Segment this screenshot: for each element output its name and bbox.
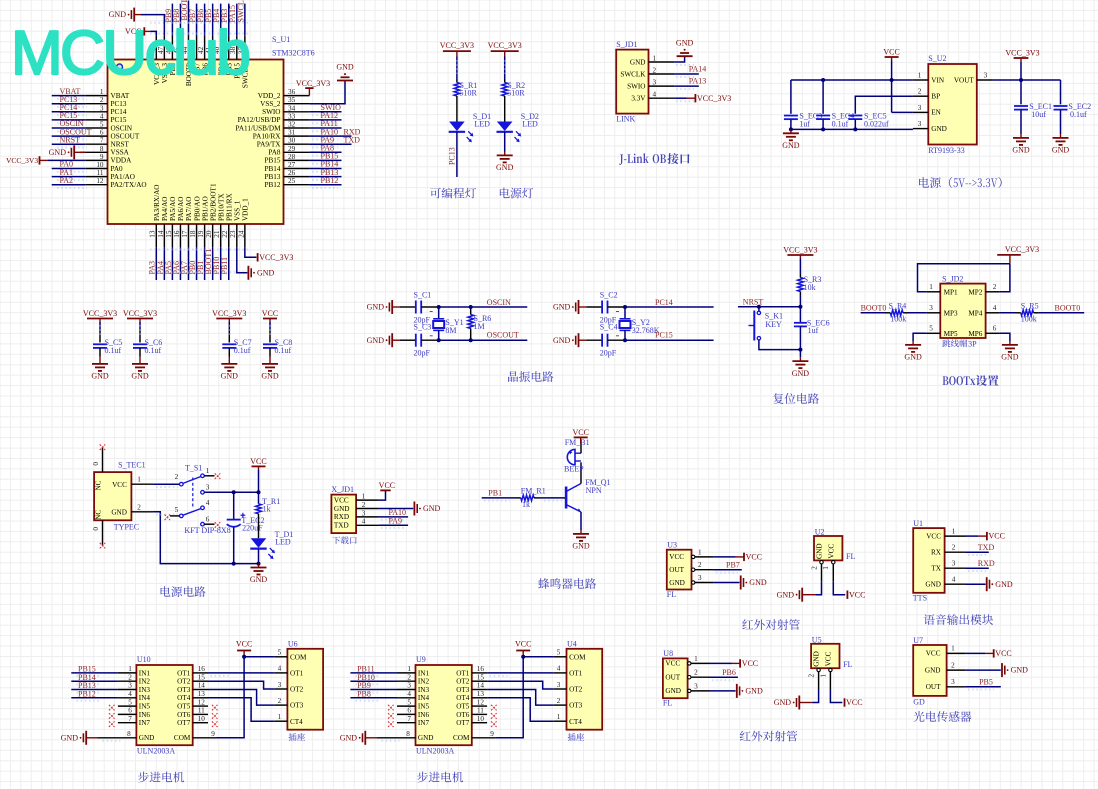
svg-text:PC13: PC13: [448, 147, 457, 165]
capacitor S_C8: [263, 343, 277, 345]
wire OT1: [208, 672, 275, 674]
svg-text:IN6: IN6: [418, 711, 430, 719]
svg-text:4: 4: [278, 665, 282, 673]
svg-text:OT6: OT6: [177, 711, 191, 719]
svg-text:GND: GND: [367, 303, 385, 312]
svg-text:2: 2: [128, 673, 132, 681]
caption stepper motor: [417, 772, 428, 783]
svg-text:TXD: TXD: [344, 135, 361, 144]
svg-text:GND: GND: [111, 508, 127, 516]
no-connect X: [109, 721, 115, 727]
wire: [309, 111, 341, 113]
ground: [1060, 134, 1062, 138]
svg-text:S_R5: S_R5: [1021, 301, 1039, 310]
wire: [966, 567, 989, 569]
wire OT2: [487, 681, 554, 689]
wire: [1020, 110, 1022, 134]
pin 2 OT3: [554, 704, 567, 706]
svg-text:2: 2: [918, 88, 922, 96]
svg-text:GND: GND: [782, 141, 800, 150]
pin 41 PB5: [212, 35, 214, 59]
svg-text:TYPEC: TYPEC: [114, 523, 139, 532]
wire: [244, 4, 246, 36]
wire: [52, 119, 86, 121]
svg-text:1: 1: [819, 673, 827, 677]
svg-text:VCC: VCC: [112, 481, 127, 489]
pin 19 PB1/AO: [204, 224, 206, 247]
wire: [759, 340, 801, 350]
wire: [188, 247, 190, 280]
svg-text:VCC_3V3: VCC_3V3: [83, 309, 117, 318]
svg-text:2: 2: [362, 501, 366, 509]
module U2 body: [814, 536, 842, 560]
svg-text:COM: COM: [290, 653, 307, 661]
svg-text:BP: BP: [931, 93, 940, 101]
svg-text:S_C3: S_C3: [414, 323, 432, 332]
wire OT4: [208, 698, 275, 721]
pin 30 PA9/TX: [284, 143, 310, 145]
svg-text:U1: U1: [913, 519, 923, 528]
pin 9 COM: [193, 737, 217, 739]
wire: [139, 322, 141, 329]
no-connect X: [109, 705, 115, 711]
wire: [52, 135, 86, 137]
svg-text:GND: GND: [816, 543, 824, 559]
svg-text:0.1uf: 0.1uf: [234, 346, 251, 355]
wire emitter: [580, 512, 582, 530]
pin 36 VDD_2: [284, 95, 310, 97]
pin 16 PA6/AO: [179, 224, 181, 247]
pin 9 COM: [472, 737, 496, 739]
svg-text:15: 15: [198, 673, 206, 681]
pin 4 IN4: [397, 697, 416, 699]
svg-text:6: 6: [206, 516, 210, 524]
wire: [139, 348, 141, 356]
capacitor S_C1: [415, 301, 417, 314]
svg-text:2: 2: [137, 503, 141, 511]
svg-text:IN1: IN1: [418, 669, 430, 677]
wire: [379, 524, 409, 526]
svg-text:20: 20: [205, 230, 213, 238]
svg-text:TX: TX: [931, 565, 941, 573]
pin 2 IN2: [118, 680, 136, 682]
wire: [52, 143, 86, 145]
svg-text:GND: GND: [774, 698, 792, 707]
svg-text:19: 19: [197, 230, 205, 238]
module U1 body: [913, 528, 944, 593]
wire: [713, 556, 735, 558]
svg-text:PA5/AO: PA5/AO: [169, 197, 177, 222]
wire: [309, 176, 341, 178]
svg-text:VCC: VCC: [262, 309, 278, 318]
pin 5 OSCIN: [85, 127, 107, 129]
wire: [586, 306, 602, 308]
pin 5 IN5: [118, 705, 136, 707]
pin 1 CT4: [275, 720, 288, 722]
wire: [99, 322, 101, 329]
svg-text:PB7: PB7: [726, 561, 740, 570]
svg-text:3: 3: [952, 559, 956, 567]
ground: [580, 530, 582, 534]
svg-text:PA13: PA13: [689, 77, 707, 86]
svg-text:7: 7: [128, 715, 132, 723]
svg-text:510R: 510R: [460, 89, 478, 98]
svg-text:GND: GND: [553, 336, 571, 345]
svg-text:VCC: VCC: [334, 496, 349, 504]
svg-text:9: 9: [100, 153, 104, 161]
wire: [790, 119, 792, 129]
caption programmable light: [430, 188, 441, 199]
svg-text:VCC_3V3: VCC_3V3: [1005, 245, 1039, 254]
svg-text:GND: GND: [1011, 666, 1029, 675]
wire: [999, 312, 1015, 314]
ground: [337, 80, 353, 82]
pin 22 PB11/RX: [228, 224, 230, 247]
svg-text:3: 3: [929, 304, 933, 312]
svg-text:S_U1: S_U1: [272, 35, 290, 44]
svg-text:FL: FL: [663, 699, 672, 708]
wire NRST: [738, 306, 800, 308]
jumper S_JD2 body: [940, 284, 985, 338]
svg-text:PB6: PB6: [722, 668, 736, 677]
pin 1 IN1: [397, 672, 416, 674]
switch S_K1 KEY: [757, 311, 760, 314]
pin 13 OT4: [193, 697, 208, 699]
svg-text:GND: GND: [61, 733, 79, 742]
connector S_TEC1 TYPEC body: [94, 472, 131, 520]
pin 21 PB10/TX: [220, 224, 222, 247]
caption power circuit: [161, 586, 171, 596]
svg-text:100k: 100k: [890, 315, 906, 324]
wire: [212, 4, 214, 36]
junction: [469, 305, 473, 309]
wire: [309, 81, 345, 104]
wire: [228, 322, 230, 329]
pin 4 GND: [945, 583, 966, 585]
value download port: [332, 537, 340, 545]
pin 16 OT1: [193, 672, 208, 674]
svg-text:IN4: IN4: [139, 694, 151, 702]
junction: [789, 127, 793, 131]
svg-text:OT4: OT4: [177, 694, 191, 702]
svg-text:1: 1: [698, 548, 702, 556]
svg-text:5: 5: [278, 649, 282, 657]
module U3 body: [667, 550, 692, 590]
svg-text:0.1uf: 0.1uf: [275, 346, 292, 355]
svg-text:GND: GND: [131, 372, 149, 381]
caption power 5V to 3.3V: [919, 177, 929, 188]
value jumper cap 3P: [942, 339, 950, 347]
svg-text:8: 8: [406, 730, 410, 738]
svg-text:11: 11: [97, 169, 104, 177]
wire: [471, 306, 528, 308]
wire: [674, 97, 686, 99]
svg-text:VCC: VCC: [995, 649, 1011, 658]
svg-text:GND: GND: [336, 63, 354, 72]
svg-text:GND: GND: [676, 38, 694, 47]
svg-text:VBAT: VBAT: [111, 92, 130, 100]
wire: [71, 697, 118, 699]
no-connect X: [212, 721, 218, 727]
svg-text:PA7/AO: PA7/AO: [185, 197, 193, 222]
svg-text:4: 4: [952, 575, 956, 583]
ground: [677, 55, 693, 57]
pin 32 PA11/USB/DM: [284, 127, 310, 129]
wire: [71, 672, 118, 674]
svg-text:24: 24: [237, 230, 245, 238]
capacitor S_C2: [601, 301, 603, 314]
no-connect X: [215, 473, 221, 479]
wire OT3: [487, 690, 554, 706]
svg-text:RT9193-33: RT9193-33: [928, 146, 964, 155]
svg-text:PC13: PC13: [111, 100, 127, 108]
wire: [966, 535, 978, 537]
pin 20 PB2/BOOT1: [212, 224, 214, 247]
svg-text:1: 1: [918, 72, 922, 80]
wire: [52, 95, 86, 97]
svg-text:S_C2: S_C2: [600, 291, 618, 300]
svg-text:IN2: IN2: [139, 678, 151, 686]
wire: [456, 132, 458, 177]
svg-text:IN1: IN1: [139, 669, 151, 677]
svg-text:2: 2: [557, 697, 561, 705]
wire OT2: [208, 681, 275, 689]
svg-text:GND: GND: [139, 734, 155, 742]
wire: [799, 350, 801, 358]
svg-text:15: 15: [477, 673, 485, 681]
svg-text:VCC: VCC: [989, 532, 1005, 541]
svg-text:OSCOUT: OSCOUT: [487, 331, 519, 340]
svg-text:OUT: OUT: [669, 566, 684, 574]
wire: [52, 111, 86, 113]
svg-text:VCC: VCC: [742, 659, 758, 668]
svg-text:CT4: CT4: [569, 718, 582, 726]
svg-text:27: 27: [288, 161, 296, 169]
svg-text:1: 1: [951, 645, 955, 653]
wire: [179, 4, 181, 36]
svg-text:SWIO: SWIO: [262, 108, 280, 116]
pin 27 PB14: [284, 168, 310, 170]
svg-text:VOUT: VOUT: [954, 76, 975, 84]
svg-text:3.3V: 3.3V: [631, 95, 646, 103]
power VCC: [380, 489, 390, 491]
svg-text:U10: U10: [137, 655, 151, 664]
wire: [456, 99, 458, 122]
wire: [504, 57, 506, 80]
capacitor S_C5: [93, 343, 107, 345]
svg-text:30: 30: [288, 137, 296, 145]
wire: [710, 676, 738, 678]
svg-text:U2: U2: [815, 528, 825, 537]
wire: [999, 333, 1010, 341]
svg-text:1: 1: [694, 655, 698, 663]
svg-text:GND: GND: [995, 580, 1013, 589]
no-connect X: [100, 444, 106, 450]
pin 15 OT2: [472, 680, 487, 682]
svg-text:PC15: PC15: [111, 116, 127, 124]
wire: [790, 80, 792, 114]
wire: [1020, 62, 1022, 104]
wire: [350, 697, 397, 699]
svg-text:PB14: PB14: [265, 165, 281, 173]
svg-text:OT1: OT1: [456, 669, 470, 677]
wire: [236, 4, 238, 36]
pin 3 GND: [913, 128, 928, 130]
wire: [48, 159, 85, 161]
svg-text:8M: 8M: [445, 326, 456, 335]
pin 1 VCC: [947, 652, 966, 654]
svg-text:3: 3: [653, 79, 657, 87]
wire: [1060, 80, 1062, 104]
svg-text:VCC_3V3: VCC_3V3: [783, 246, 817, 255]
svg-text:510R: 510R: [507, 89, 525, 98]
wire: [52, 184, 86, 186]
svg-text:IN5: IN5: [418, 703, 430, 711]
svg-text:S_C4: S_C4: [600, 323, 618, 332]
pin 12 PA2/TX/AO: [85, 184, 107, 186]
dots: [150, 249, 250, 251]
caption voice output module: [924, 614, 935, 625]
wire pin2: [999, 264, 1010, 292]
ground: [504, 152, 506, 156]
wire: [799, 259, 801, 275]
svg-text:GND: GND: [925, 666, 941, 674]
svg-text:2: 2: [808, 673, 816, 677]
pin 45 PB8: [179, 35, 181, 59]
resistor S_R2: [504, 79, 506, 83]
wire OT3: [208, 690, 275, 706]
svg-text:20pF: 20pF: [414, 349, 431, 358]
svg-text:2: 2: [694, 669, 698, 677]
pin 1 CT4: [554, 720, 567, 722]
svg-text:7: 7: [100, 137, 104, 145]
svg-text:10: 10: [96, 161, 104, 169]
power VCC: [846, 591, 848, 599]
svg-text:12: 12: [96, 177, 104, 185]
ground: [799, 357, 801, 361]
svg-text:OT7: OT7: [456, 719, 470, 727]
wire: [269, 348, 271, 356]
svg-text:VCC_3V3: VCC_3V3: [296, 79, 330, 88]
pin 3 OT2: [554, 688, 567, 690]
svg-text:32: 32: [288, 121, 296, 129]
svg-text:3: 3: [984, 72, 988, 80]
caption crystal circuit: [508, 371, 518, 382]
svg-text:STM32C8T6: STM32C8T6: [272, 49, 315, 58]
wire: [400, 339, 416, 341]
svg-text:COM: COM: [453, 734, 470, 742]
svg-text:GND: GND: [665, 687, 681, 695]
svg-text:PB13: PB13: [265, 173, 281, 181]
wire: [833, 582, 845, 595]
svg-text:28: 28: [288, 153, 296, 161]
resistor FM_R1: [515, 497, 521, 499]
svg-text:KFT DIP-8X8: KFT DIP-8X8: [184, 526, 230, 535]
capacitor S_C7: [222, 343, 236, 345]
no-connect X: [388, 721, 394, 727]
wire: [758, 307, 760, 311]
ground: [740, 576, 742, 590]
svg-text:BEEP: BEEP: [564, 465, 584, 474]
ground: [228, 360, 230, 364]
svg-text:VCC: VCC: [926, 532, 941, 540]
wire: [309, 151, 341, 153]
wire: [220, 4, 222, 36]
wire: [713, 582, 739, 584]
svg-text:PA0: PA0: [111, 165, 124, 173]
wire: [141, 15, 164, 36]
svg-text:1: 1: [100, 88, 104, 96]
pin 4 IN4: [118, 697, 136, 699]
pin 42 PB6: [204, 35, 206, 59]
svg-text:MP3: MP3: [944, 309, 958, 317]
pin 26 PB13: [284, 176, 310, 178]
capacitor S_EC6: [799, 307, 801, 323]
svg-text:3: 3: [694, 682, 698, 690]
svg-text:RXD: RXD: [334, 513, 349, 521]
capacitor S_C3: [415, 334, 417, 347]
pin 6 OSCOUT: [85, 135, 107, 137]
svg-text:3: 3: [951, 678, 955, 686]
caption buzzer circuit: [538, 578, 549, 589]
wire: [421, 339, 439, 341]
junction: [798, 305, 802, 309]
svg-text:3: 3: [362, 509, 366, 517]
svg-text:5: 5: [100, 121, 104, 129]
svg-text:PB5: PB5: [979, 678, 993, 687]
svg-text:4: 4: [557, 665, 561, 673]
svg-text:8: 8: [100, 145, 104, 153]
svg-text:KEY: KEY: [765, 320, 782, 329]
junction: [257, 562, 261, 566]
pin 1 GND: [649, 61, 675, 63]
svg-text:4: 4: [993, 304, 997, 312]
wire: [799, 295, 801, 307]
svg-text:10k: 10k: [804, 283, 816, 292]
svg-text:2: 2: [698, 561, 702, 569]
pin 1 VCC: [356, 499, 379, 501]
svg-text:FL: FL: [667, 590, 676, 599]
wire: [504, 99, 506, 122]
wire: [625, 306, 714, 308]
svg-text:12: 12: [477, 698, 485, 706]
svg-text:GND: GND: [553, 303, 571, 312]
pin 2 SWCLK: [649, 73, 675, 75]
svg-text:4: 4: [653, 91, 657, 99]
svg-text:1: 1: [362, 493, 366, 501]
wire: [830, 690, 842, 703]
wire VOUT: [993, 79, 1061, 81]
capacitor S_C6: [133, 343, 147, 345]
ground: [247, 266, 249, 280]
pin 7 IN7: [118, 722, 136, 724]
svg-text:2: 2: [278, 697, 282, 705]
wire: [892, 111, 913, 113]
wire: [854, 119, 856, 129]
svg-text:X_JD1: X_JD1: [331, 485, 354, 494]
caption reset circuit: [773, 393, 784, 404]
pin 10 PA0: [85, 168, 107, 170]
svg-text:2: 2: [810, 566, 818, 570]
wire: [196, 247, 198, 280]
ground: [139, 360, 141, 364]
svg-text:VCC: VCC: [665, 660, 680, 668]
svg-text:VCC: VCC: [846, 698, 862, 707]
svg-text:GND: GND: [423, 504, 441, 513]
wire: [815, 582, 821, 595]
pin 10 OT7: [193, 722, 208, 724]
wire: [540, 497, 563, 499]
